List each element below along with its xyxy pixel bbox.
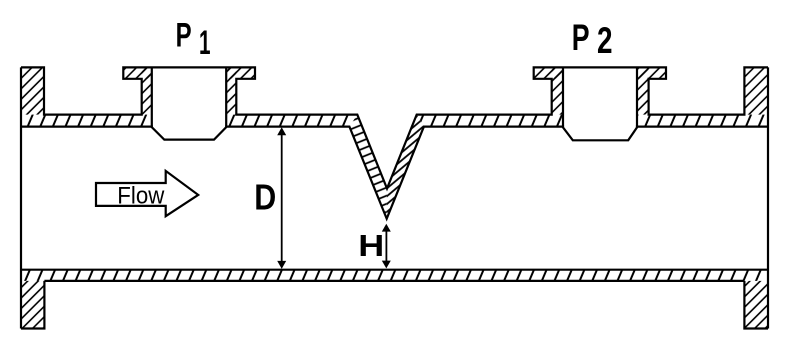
top inner surface with bosses and V [21,127,768,219]
tap P1 right lip [226,67,255,78]
right end face [767,67,769,328]
svg-text:P: P [176,16,192,54]
svg-text:1: 1 [199,24,211,62]
tap P1 right neck [226,67,236,114]
bottom wall top edge [21,269,768,271]
bottom-right end flange [744,281,768,329]
top-left end flange [21,67,44,114]
top pipe wall segment 4 [637,115,768,127]
bottom pipe wall [21,270,768,281]
top-right end flange [744,67,768,114]
tap P1 left lip [123,67,152,78]
bottom-right flange outline [744,281,768,329]
tap P2 left neck [552,67,563,114]
bottom-left end flange [21,281,44,329]
bottom-left flange outline [21,281,44,329]
top pipe wall segment 2 [226,115,357,127]
P2 bore lines [563,67,637,126]
top assembly outer outline [21,67,768,188]
flow block arrow [96,171,198,216]
svg-text:P: P [572,16,590,58]
V wedge right strip [387,115,424,219]
tap P2 left lip [534,67,563,78]
top pipe wall segment 3 [417,115,563,127]
svg-text:2: 2 [597,20,613,61]
H dimension arrow [385,228,387,262]
svg-text:D: D [254,177,276,218]
tap P2 right lip [637,67,666,78]
tap P2 right neck [637,67,649,114]
svg-text:H: H [358,228,384,263]
D dimension arrow [281,133,283,263]
top pipe wall segment 1 [21,115,152,127]
V wedge left strip [349,115,387,219]
left end face [20,67,22,328]
P1 bore lines [152,67,226,126]
outlines [21,67,768,328]
bottom wall bottom edge [44,280,744,282]
tap P1 left neck [142,67,152,114]
svg-text:Flow: Flow [117,183,164,210]
